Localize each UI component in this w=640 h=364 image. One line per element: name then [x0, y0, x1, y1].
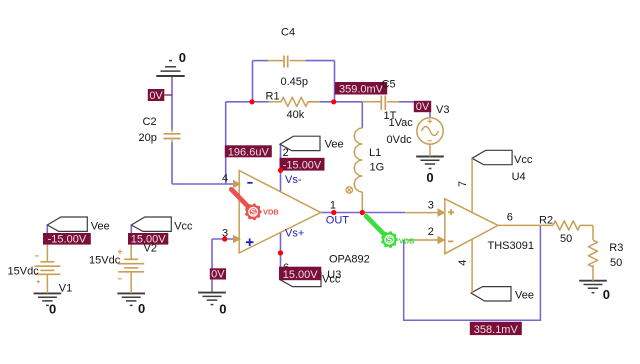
svg-text:15Vdc: 15Vdc [8, 266, 40, 278]
svg-text:4: 4 [457, 260, 469, 266]
svg-text:1Vac: 1Vac [389, 117, 414, 129]
svg-text:358.1mV: 358.1mV [474, 324, 519, 336]
svg-text:50: 50 [610, 257, 622, 269]
svg-text:15.00V: 15.00V [283, 269, 319, 281]
svg-text:U4: U4 [512, 171, 526, 183]
svg-text:7: 7 [457, 181, 469, 187]
svg-text:0: 0 [138, 301, 145, 316]
svg-text:L1: L1 [369, 147, 381, 159]
svg-text:Vs-: Vs- [285, 174, 302, 186]
svg-text:3: 3 [222, 227, 228, 239]
svg-text:3: 3 [428, 200, 434, 212]
svg-text:359.0mV: 359.0mV [339, 84, 384, 96]
svg-text:S: S [386, 235, 392, 245]
svg-text:Vs+: Vs+ [285, 228, 304, 240]
svg-text:1G: 1G [370, 161, 385, 173]
svg-text:0: 0 [219, 302, 226, 317]
svg-text:OUT: OUT [326, 215, 350, 227]
svg-text:VDB: VDB [263, 208, 279, 217]
svg-text:20p: 20p [139, 132, 157, 144]
svg-text:0: 0 [49, 302, 56, 317]
svg-text:0.45p: 0.45p [281, 76, 309, 88]
svg-text:V3: V3 [436, 104, 449, 116]
svg-text:THS3091: THS3091 [488, 240, 534, 252]
svg-text:4: 4 [222, 173, 228, 185]
svg-text:0: 0 [603, 287, 610, 302]
svg-text:R1: R1 [266, 91, 280, 103]
svg-text:-15.00V: -15.00V [48, 234, 87, 246]
svg-text:OPA892: OPA892 [329, 254, 370, 266]
svg-text:0Vdc: 0Vdc [387, 134, 413, 146]
svg-text:Vcc: Vcc [514, 154, 533, 166]
svg-text:C4: C4 [281, 27, 295, 39]
svg-text:Vee: Vee [91, 221, 110, 233]
svg-text:Vcc: Vcc [322, 273, 341, 285]
svg-text:R3: R3 [609, 242, 623, 254]
svg-text:S: S [250, 207, 256, 217]
svg-text:Vee: Vee [515, 290, 534, 302]
svg-text:196.6uV: 196.6uV [228, 146, 270, 158]
svg-text:-15.00V: -15.00V [283, 160, 322, 172]
svg-text:50: 50 [560, 233, 572, 245]
svg-text:VDB: VDB [399, 237, 415, 246]
svg-text:6: 6 [507, 212, 513, 224]
svg-text:1: 1 [330, 200, 336, 212]
svg-text:V1: V1 [59, 283, 72, 295]
svg-text:0V: 0V [149, 90, 163, 102]
svg-text:15.00V: 15.00V [131, 234, 167, 246]
svg-text:Vcc: Vcc [174, 221, 193, 233]
svg-text:C2: C2 [143, 116, 157, 128]
svg-text:0: 0 [179, 50, 186, 65]
svg-text:15Vdc: 15Vdc [89, 255, 121, 267]
svg-text:0: 0 [426, 170, 433, 185]
svg-text:0V: 0V [416, 101, 430, 113]
svg-text:R2: R2 [539, 215, 553, 227]
svg-text:0V: 0V [211, 269, 225, 281]
svg-text:Vee: Vee [325, 139, 344, 151]
svg-text:C5: C5 [382, 78, 396, 90]
svg-text:2: 2 [428, 226, 434, 238]
svg-text:40k: 40k [287, 109, 305, 121]
svg-text:2: 2 [283, 147, 289, 159]
